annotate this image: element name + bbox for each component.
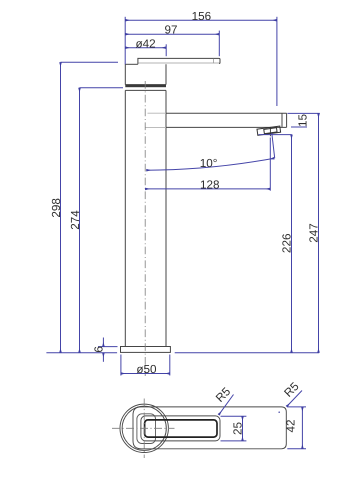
- svg-text:128: 128: [200, 179, 220, 192]
- svg-text:ø42: ø42: [136, 37, 156, 50]
- svg-text:6: 6: [93, 346, 106, 353]
- svg-text:247: 247: [307, 223, 320, 243]
- svg-text:226: 226: [281, 234, 294, 254]
- svg-text:274: 274: [69, 210, 82, 230]
- svg-text:R5: R5: [282, 380, 302, 400]
- svg-text:25: 25: [232, 422, 245, 436]
- svg-text:ø50: ø50: [136, 363, 157, 376]
- svg-text:10°: 10°: [200, 157, 218, 170]
- svg-text:15: 15: [296, 114, 309, 128]
- svg-text:97: 97: [164, 24, 177, 37]
- svg-text:298: 298: [50, 198, 63, 218]
- svg-text:156: 156: [192, 10, 212, 23]
- svg-text:42: 42: [285, 419, 298, 432]
- svg-text:R5: R5: [213, 385, 233, 405]
